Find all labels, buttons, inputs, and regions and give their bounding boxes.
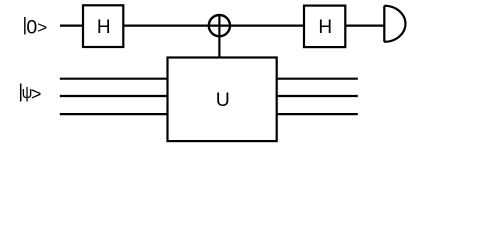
qubit label |0> <box>23 14 48 38</box>
wire (bus line 1 left) <box>60 78 168 80</box>
wire (bus line 3 right) <box>277 113 358 115</box>
qubit label |psi> <box>18 82 41 105</box>
svg-text:>: > <box>37 18 47 37</box>
svg-text:H: H <box>97 17 111 38</box>
svg-text:>: > <box>31 84 42 104</box>
wire (control line down to U) <box>218 36 220 58</box>
gate U (controlled unitary) <box>168 58 277 142</box>
wire (bus line 2 left) <box>60 95 168 97</box>
wire <box>230 25 305 27</box>
gate H2 (second Hadamard) <box>304 6 345 48</box>
wire (bus line 1 right) <box>277 78 358 80</box>
measurement symbol M <box>384 6 405 42</box>
wire (bus line 3 left) <box>60 113 168 115</box>
wire (bus line 2 right) <box>277 95 358 97</box>
svg-text:0: 0 <box>26 16 37 38</box>
svg-text:U: U <box>216 89 230 111</box>
wire <box>60 25 84 27</box>
CNOT target symbol (circled plus) <box>208 15 231 37</box>
wire <box>123 25 209 27</box>
svg-text:H: H <box>318 17 332 38</box>
gate H1 (first Hadamard) <box>83 5 123 47</box>
wire <box>345 25 384 27</box>
